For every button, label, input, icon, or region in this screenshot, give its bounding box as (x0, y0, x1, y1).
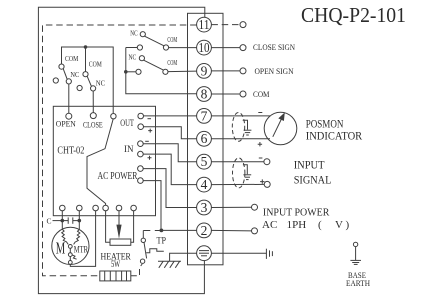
plus label input signal (260, 179, 264, 183)
dashed wire heater to TP (131, 264, 142, 276)
junction (capacitor right) (78, 219, 82, 223)
plus label IN (148, 156, 152, 160)
minus label meter (258, 112, 262, 114)
heater resistor body (100, 271, 131, 281)
CLOSE terminal (90, 113, 96, 119)
wire OUT+ to terminal 6 (144, 127, 197, 139)
plus label OUT (148, 129, 152, 133)
wire motor bottom to B3 (70, 211, 95, 267)
svg-text:COM: COM (167, 35, 177, 44)
wire earth terminal to chassis (211, 252, 266, 254)
terminal 9 (197, 63, 246, 78)
terminal 5 (197, 154, 270, 169)
switch S1 COM contact (59, 64, 64, 69)
svg-text:NC: NC (96, 78, 105, 87)
bus terminal T3 (111, 114, 116, 119)
switch S3 COM contact (163, 45, 168, 50)
svg-text:4: 4 (201, 177, 208, 192)
svg-text:5: 5 (201, 154, 208, 169)
potentiometer wiper arrow (116, 225, 121, 239)
svg-text:NC: NC (70, 70, 79, 79)
svg-text:OPEN: OPEN (56, 119, 76, 129)
svg-text:COM: COM (89, 60, 102, 69)
AC power terminal 1 (138, 166, 144, 172)
terminal 11 (197, 17, 246, 32)
switch S4 lower contact (136, 69, 141, 74)
wire B2 to motor winding (78, 211, 80, 230)
svg-text:OPEN SIGN: OPEN SIGN (255, 66, 294, 76)
svg-text:C: C (47, 216, 52, 225)
svg-text:INPUT: INPUT (294, 160, 325, 172)
internal routed wire T3 to B4 (87, 119, 113, 205)
switch S2 COM contact (83, 72, 88, 77)
wire AC1 to terminal 3 (143, 169, 196, 208)
switch S4 COM contact (163, 69, 168, 74)
svg-text:3: 3 (201, 200, 208, 215)
motor thermal squiggle (72, 255, 76, 259)
wire S3 lower contact to bus (126, 47, 138, 49)
wire S1 NC to OPEN (68, 84, 70, 113)
motor M circle (52, 227, 89, 264)
wire S4 COM to terminal 9 (168, 70, 197, 73)
svg-text:2: 2 (201, 223, 208, 238)
svg-text:COM: COM (167, 58, 177, 67)
OUT+ terminal (138, 124, 144, 130)
meter needle arrowhead (278, 112, 285, 121)
OPEN terminal (66, 113, 72, 119)
wire B6 to potentiometer end (131, 211, 134, 242)
IN+ terminal (138, 151, 144, 157)
motor link wire 2 (69, 257, 71, 261)
svg-text:6: 6 (201, 131, 208, 146)
svg-text:CHQ-P2-101: CHQ-P2-101 (301, 3, 406, 27)
minus label IN (145, 140, 149, 142)
bottom terminal B1 (60, 205, 66, 211)
wire B1 to motor winding (61, 211, 63, 229)
shield 2 drain to ground (243, 165, 247, 175)
wire S4 lower contact to bus (126, 71, 136, 73)
shield cable 2 (233, 158, 245, 188)
shield 2 ground (243, 175, 251, 180)
wire S3 COM to terminal 10 (169, 47, 197, 49)
minus label input signal (259, 157, 263, 159)
bottom terminal B4 (103, 205, 109, 211)
svg-text:10: 10 (199, 40, 210, 55)
svg-text:COM: COM (65, 54, 79, 63)
svg-text:NC: NC (129, 53, 137, 62)
shield 1 ground (244, 130, 252, 135)
junction (signal bus) (124, 70, 128, 74)
AC power terminal 2 (138, 178, 144, 184)
switch S1 NO contact (53, 78, 58, 83)
svg-text:NC: NC (130, 28, 137, 37)
wire IN- to terminal 5 (143, 144, 196, 162)
svg-text:POSMON: POSMON (306, 118, 344, 130)
switch S3 NC contact (140, 32, 145, 37)
bottom terminal B6 (131, 205, 137, 211)
switch S1 NC contact (66, 79, 71, 84)
minus label OUT (148, 118, 152, 120)
switch S1 arm (63, 69, 67, 80)
svg-text:CLOSE SIGN: CLOSE SIGN (253, 42, 295, 52)
switch S3 arm (145, 36, 165, 46)
bottom terminal B5 (116, 205, 122, 211)
svg-text:IN: IN (124, 145, 134, 155)
wire B4 to potentiometer end (106, 211, 110, 242)
limit switch group left: common bus wire (62, 47, 114, 113)
motor winding right (74, 229, 80, 244)
svg-text:INDICATOR: INDICATOR (306, 130, 363, 142)
svg-text:EARTH: EARTH (346, 278, 370, 288)
posmon indicator meter U1 (264, 112, 297, 145)
switch S3 lower contact (137, 45, 142, 50)
svg-text:AC1PH(V): AC1PH(V) (262, 219, 350, 231)
TP switch arm (144, 242, 147, 258)
outer border (38, 7, 204, 293)
OUT- terminal (138, 113, 144, 119)
svg-text:TP: TP (157, 237, 167, 247)
wire C label stub (53, 220, 63, 222)
switch S4 NC contact (139, 56, 144, 61)
chassis ground symbol (266, 249, 272, 259)
svg-text:MTR: MTR (74, 246, 89, 256)
capacitor C (62, 217, 79, 223)
terminal 2 (197, 223, 258, 238)
protective earth symbol (158, 261, 181, 268)
svg-text:CLOSE: CLOSE (83, 119, 103, 129)
wire OUT- to terminal 7 (144, 115, 197, 117)
bottom terminal B3 (93, 205, 99, 211)
svg-text:SIGNAL: SIGNAL (294, 174, 332, 186)
shield cable 1 (232, 113, 244, 142)
terminal 10 (197, 40, 246, 55)
motor node A (68, 245, 72, 249)
TP upper contact (141, 238, 145, 242)
svg-text:M: M (56, 239, 65, 258)
shield 1 drain to ground (243, 120, 248, 129)
motor node B (68, 253, 72, 257)
meter needle (273, 120, 281, 137)
terminal 8 (197, 86, 246, 101)
wire B5 wiper lead (118, 211, 120, 226)
motor winding left (62, 229, 68, 244)
junction (TP tap) (160, 229, 164, 233)
wire AC2 to terminal 2 (143, 181, 196, 231)
terminal 4 (197, 177, 271, 192)
switch S2 arm (87, 76, 91, 86)
wire signal bus to terminal 8 (126, 48, 197, 94)
motor link wire (69, 248, 71, 252)
switch S2 NO contact (77, 85, 82, 90)
enclosure dashed boundary (43, 25, 197, 276)
svg-text:INPUT POWER: INPUT POWER (263, 207, 330, 219)
svg-text:AC POWER: AC POWER (98, 171, 138, 182)
internal earth wire (170, 253, 197, 261)
svg-text:CHT-02: CHT-02 (57, 145, 84, 156)
TP thermal element (146, 249, 164, 253)
svg-text:5W: 5W (111, 260, 120, 270)
potentiometer RP body (110, 239, 131, 245)
switch S2 NC contact (91, 86, 96, 91)
plus label meter (258, 142, 262, 146)
dashed wire TP to junction (143, 230, 159, 232)
CHT-02 controller box (53, 106, 155, 215)
motor node C (68, 261, 72, 265)
IN- terminal (138, 141, 144, 147)
wire COM2 riser (85, 47, 87, 72)
wire TP to junction (142, 231, 144, 239)
svg-text:8: 8 (201, 86, 208, 101)
svg-text:9: 9 (201, 63, 208, 78)
wire IN+ to terminal 4 (143, 154, 196, 185)
terminal 3 (197, 200, 258, 215)
svg-text:7: 7 (201, 108, 208, 123)
terminal block (188, 13, 224, 264)
terminal 7 (197, 108, 270, 123)
wire S2 NC to CLOSE (92, 91, 94, 113)
bottom terminal B2 (77, 205, 83, 211)
base earth electrode (350, 242, 361, 264)
junction (COM2 riser) (84, 45, 88, 49)
switch S4 arm (144, 60, 164, 70)
earth terminal (197, 246, 212, 261)
TP lower contact (140, 259, 144, 263)
junction (capacitor left) (61, 219, 65, 223)
svg-text:OUT: OUT (120, 119, 134, 129)
svg-text:COM: COM (253, 89, 270, 99)
terminal 6 (197, 131, 270, 146)
svg-text:11: 11 (199, 17, 210, 32)
